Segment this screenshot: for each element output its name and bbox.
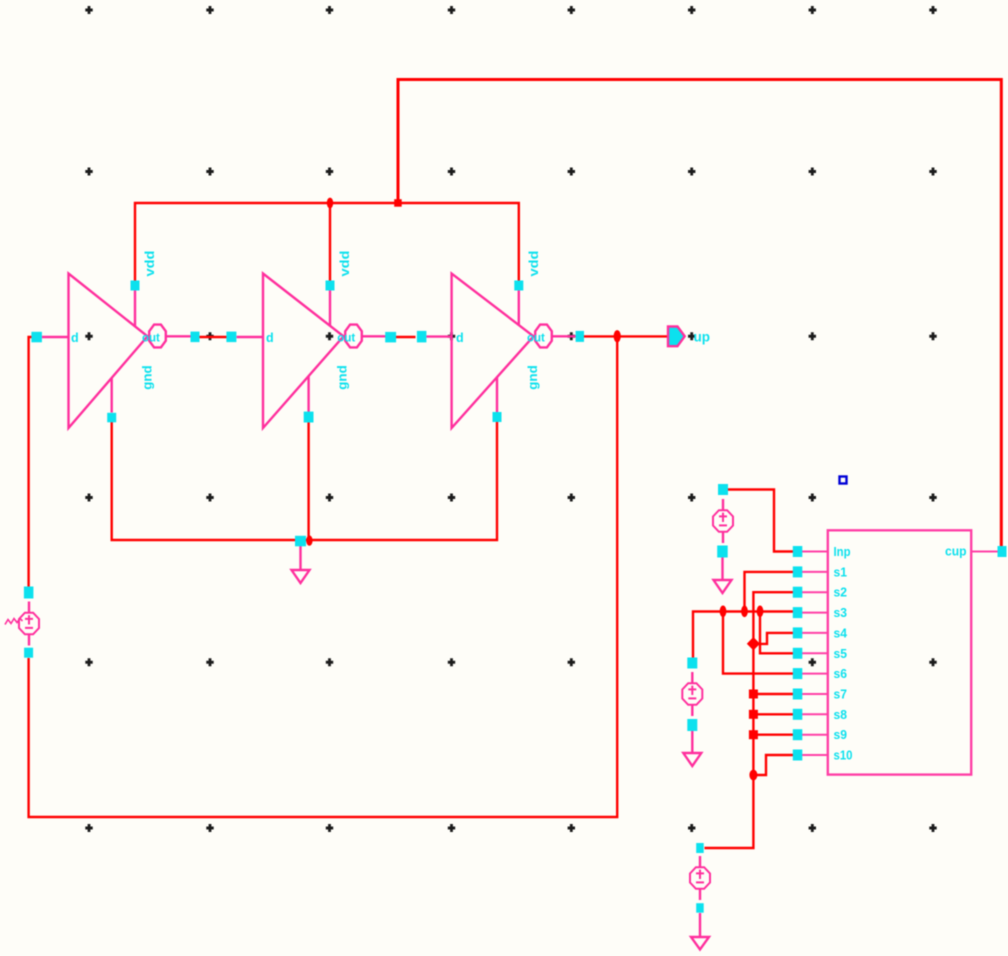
svg-text:out: out xyxy=(142,332,160,344)
svg-text:vdd: vdd xyxy=(527,251,541,277)
svg-text:s3: s3 xyxy=(834,605,848,620)
svg-text:s7: s7 xyxy=(834,687,848,702)
svg-text:vdd: vdd xyxy=(338,251,352,277)
svg-text:Inp: Inp xyxy=(834,544,851,559)
svg-text:vdd: vdd xyxy=(143,251,157,277)
svg-text:cup: cup xyxy=(945,544,967,559)
svg-text:up: up xyxy=(694,330,711,345)
svg-text:s4: s4 xyxy=(834,625,848,640)
svg-text:gnd: gnd xyxy=(526,365,540,390)
svg-text:d: d xyxy=(456,331,464,345)
svg-text:s6: s6 xyxy=(834,666,848,681)
svg-text:s1: s1 xyxy=(834,564,848,579)
svg-text:out: out xyxy=(527,332,545,344)
svg-text:s10: s10 xyxy=(834,748,853,763)
svg-text:s8: s8 xyxy=(834,707,848,722)
svg-text:s9: s9 xyxy=(834,727,848,742)
svg-text:s2: s2 xyxy=(834,585,848,600)
svg-text:d: d xyxy=(266,331,274,345)
svg-text:s5: s5 xyxy=(834,646,848,661)
svg-text:gnd: gnd xyxy=(336,365,350,390)
svg-text:out: out xyxy=(337,332,355,344)
svg-text:d: d xyxy=(71,331,79,345)
svg-text:gnd: gnd xyxy=(141,365,155,390)
